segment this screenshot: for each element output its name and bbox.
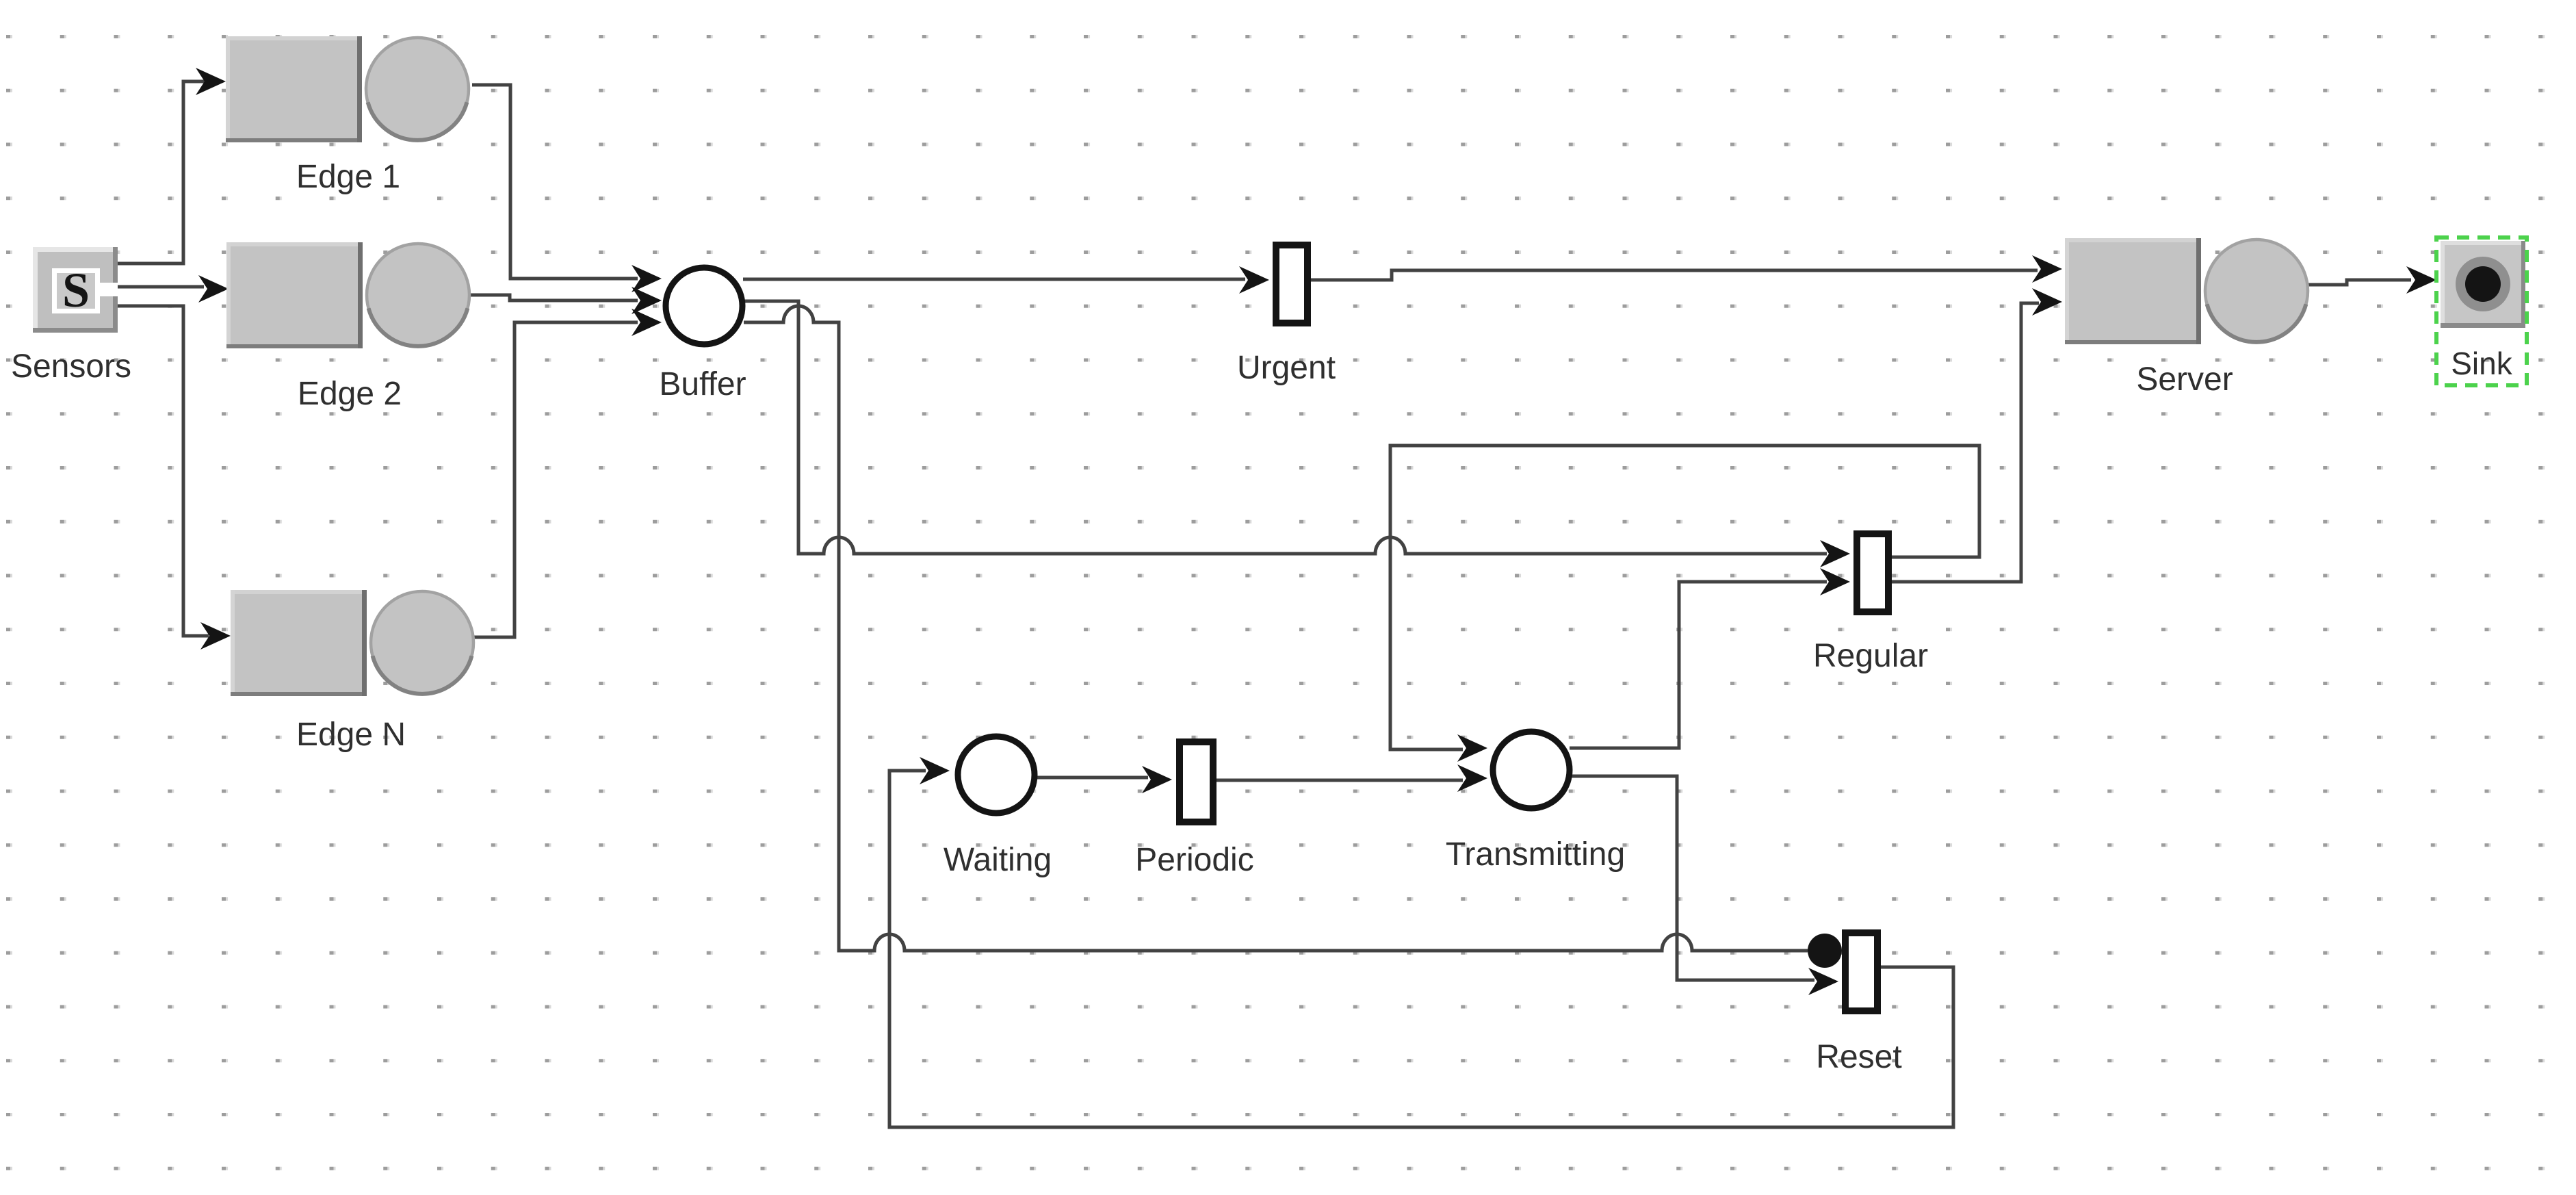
- svg-text:Reset: Reset: [1816, 1039, 1901, 1075]
- arrowhead into Regular from Buffer: [1820, 540, 1850, 567]
- transition Regular (bar): [1857, 534, 1888, 612]
- wire Regular to Server: [1892, 303, 2039, 582]
- station Edge N (queue rectangle): [231, 590, 367, 696]
- inhibitor dot at Reset: [1808, 934, 1842, 968]
- sink Sink (icon): [2441, 241, 2525, 328]
- svg-text:Edge N: Edge N: [296, 717, 406, 753]
- svg-text:Buffer: Buffer: [659, 366, 746, 402]
- arrowhead into Sink: [2406, 266, 2436, 294]
- station Server (queue rectangle): [2065, 238, 2201, 344]
- wire Reset to Waiting (feedback loop): [889, 771, 1953, 1127]
- arrowhead into Regular from Transmitting: [1820, 568, 1850, 595]
- svg-text:Edge 2: Edge 2: [298, 376, 402, 412]
- wire Edge N to Buffer: [474, 322, 638, 637]
- arrowhead into Periodic: [1142, 766, 1172, 793]
- source Sensors (icon): [33, 247, 118, 333]
- arrowhead into Buffer from Edge N: [632, 309, 662, 336]
- arrowhead into Urgent: [1239, 266, 1269, 294]
- wire Transmitting to Regular: [1570, 582, 1827, 748]
- wire Waiting to Periodic: [1035, 776, 1148, 780]
- arrowhead into Transmitting from Regular: [1457, 734, 1487, 762]
- wire Periodic to Transmitting: [1217, 779, 1463, 782]
- transition Reset (bar): [1845, 933, 1877, 1011]
- wire Edge 2 to Buffer: [471, 295, 638, 300]
- place Transmitting (circle): [1493, 732, 1570, 808]
- svg-text:Edge 1: Edge 1: [296, 159, 400, 195]
- arrowhead into Server from Urgent: [2032, 255, 2062, 283]
- transition Periodic (bar): [1180, 742, 1213, 822]
- arrowhead into Edge 2: [198, 275, 229, 303]
- arrowhead into Buffer from Edge 2: [632, 287, 662, 314]
- svg-text:Sink: Sink: [2451, 346, 2512, 381]
- place Waiting (circle): [958, 736, 1035, 813]
- svg-text:Sensors: Sensors: [11, 348, 131, 385]
- station Edge 2 (server circle): [367, 244, 469, 346]
- svg-text:Server: Server: [2136, 361, 2233, 398]
- place Buffer (circle): [666, 268, 742, 344]
- arrowhead into Transmitting from Periodic: [1457, 764, 1487, 792]
- wire Buffer to Regular: [744, 301, 1827, 554]
- arrowhead into Edge 1: [196, 68, 226, 95]
- station Edge N (server circle): [371, 591, 473, 694]
- station Edge 1 (queue rectangle): [226, 36, 362, 142]
- svg-text:S: S: [62, 263, 90, 318]
- wire Sensors to Edge 1: [118, 81, 205, 264]
- svg-text:Waiting: Waiting: [944, 842, 1052, 878]
- svg-text:Periodic: Periodic: [1135, 842, 1253, 878]
- wire Sensors to Edge 2: [118, 285, 204, 289]
- arrowhead into Waiting: [920, 757, 950, 784]
- station Edge 1 (server circle): [366, 38, 469, 140]
- wire Buffer to Reset (inhibitor arc): [744, 306, 1808, 951]
- svg-text:Urgent: Urgent: [1237, 350, 1336, 386]
- wire Regular to Transmitting (feedback loop): [1390, 446, 1979, 749]
- station Edge 2 (queue rectangle): [226, 242, 363, 348]
- wire Buffer to Urgent: [743, 278, 1245, 281]
- wire Edge 1 to Buffer: [472, 85, 638, 279]
- arrowhead into Reset: [1808, 968, 1838, 995]
- arrowhead into Server from Regular: [2032, 288, 2062, 316]
- transition Urgent (bar): [1276, 245, 1307, 323]
- arrowhead into Edge N: [200, 622, 231, 650]
- wire Urgent to Server: [1311, 270, 2038, 280]
- svg-text:Regular: Regular: [1813, 638, 1928, 674]
- wire Server to Sink: [2308, 280, 2411, 285]
- wire Sensors to Edge N: [118, 306, 209, 636]
- arrowhead into Buffer from Edge 1: [632, 265, 662, 292]
- station Server (server circle): [2205, 240, 2308, 342]
- selection box around Sink (green dashed): [2436, 237, 2527, 385]
- svg-text:Transmitting: Transmitting: [1446, 836, 1625, 873]
- wire Transmitting to Reset: [1570, 776, 1814, 980]
